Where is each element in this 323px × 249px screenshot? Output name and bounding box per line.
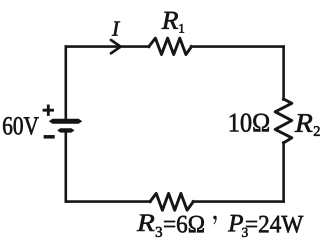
label R3 value =6 ohms <box>164 216 204 233</box>
label R3 subscript 3 <box>156 227 162 237</box>
label R1 letter <box>162 12 179 29</box>
wire bottom-left corner up to battery minus plate <box>65 131 68 202</box>
label R3 letter <box>137 215 155 231</box>
label P3 value =24 watts <box>246 216 303 233</box>
resistor R1 <box>149 38 192 54</box>
wire top-left corner to R1 <box>66 45 149 48</box>
wire bottom-right corner to R3 <box>193 200 284 203</box>
resistor R2 <box>275 99 292 143</box>
label P3 letter <box>228 215 243 231</box>
label I (current) <box>112 22 120 36</box>
label 10 ohms (R2 value) <box>230 114 269 132</box>
wire R1 to top-right corner <box>191 45 284 48</box>
battery negative (short) plate <box>57 128 74 132</box>
wire top-right corner down to R2 <box>282 47 285 100</box>
wire battery plus plate up to top-left corner <box>65 47 68 121</box>
label R2 letter <box>295 114 313 132</box>
battery positive (long) plate <box>49 119 82 124</box>
battery minus sign <box>44 135 55 139</box>
comma separator between 6-ohm and P3 labels <box>213 216 216 225</box>
resistor R3 <box>150 193 193 210</box>
label R1 subscript 1 <box>179 24 184 33</box>
wire R3 to bottom-left corner <box>66 200 151 203</box>
battery plus sign <box>43 105 54 116</box>
label R2 subscript 2 <box>314 126 320 136</box>
current direction arrow on top wire <box>111 40 121 53</box>
label P3 subscript 3 <box>242 228 248 237</box>
wire R2 to bottom-right corner <box>282 143 285 202</box>
label 60V (battery voltage) <box>3 117 39 135</box>
